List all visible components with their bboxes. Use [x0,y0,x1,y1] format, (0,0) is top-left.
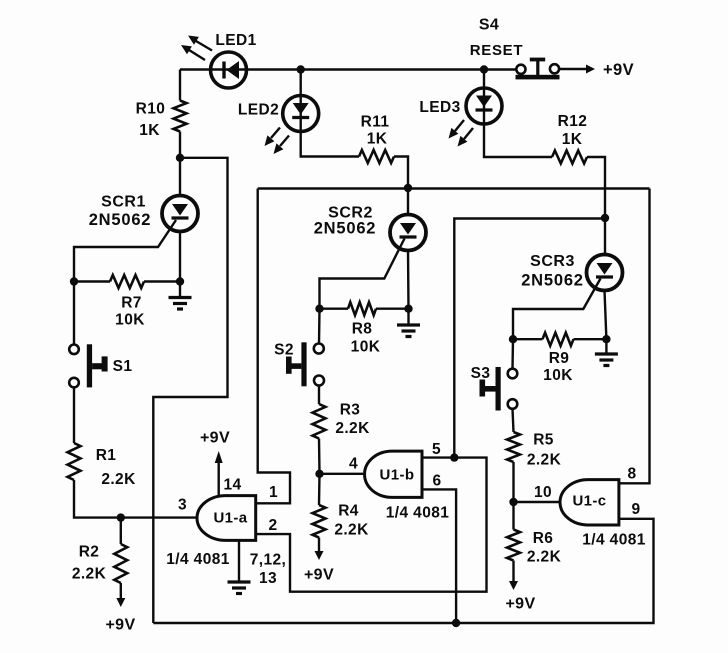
wire LED3 stem down and right to R12 [484,70,552,158]
svg-text:SCR1: SCR1 [101,194,146,211]
switch S3 pushbutton [480,367,518,411]
resistor R3 [313,404,326,439]
switch S4 RESET pushbutton [516,58,560,80]
svg-text:2.2K: 2.2K [335,420,370,437]
wire bottom bus [153,519,653,623]
node R8 left junction [315,305,323,313]
svg-text:8: 8 [627,466,636,483]
wire top +9V bus [180,68,517,70]
wire R2 to +9V arrow [116,583,125,607]
svg-text:LED1: LED1 [215,32,256,49]
svg-text:R6: R6 [533,530,554,547]
wire SCR3 cathode [605,291,607,340]
svg-text:2N5062: 2N5062 [521,272,584,290]
resistor R2 [114,544,127,583]
node LED2 top junction [297,65,305,73]
svg-text:U1-b: U1-b [380,467,415,484]
LED LED2 [283,96,319,132]
node R10/SCR1 junction [176,154,184,162]
node U1-b pin4 junction [315,470,323,478]
switch S2 pushbutton [286,342,324,386]
wire SCR1 gate [74,220,176,282]
wire pin 8 up to SCR2 bus [620,189,650,484]
wire R2 top lead [120,518,122,544]
svg-text:10: 10 [534,484,552,501]
svg-text:2.2K: 2.2K [527,452,562,469]
svg-text:U1-a: U1-a [213,510,247,527]
svg-text:LED2: LED2 [238,102,279,119]
svg-text:1: 1 [269,484,278,501]
node LED3 top junction [480,65,488,73]
wire SCR3 gate [513,279,601,340]
svg-text:9: 9 [631,501,640,518]
svg-text:10K: 10K [351,339,381,356]
node R9 right junction [602,335,610,343]
svg-text:14: 14 [223,477,241,494]
svg-text:2: 2 [268,517,277,534]
svg-text:2.2K: 2.2K [72,566,107,583]
svg-text:1/4 4081: 1/4 4081 [582,532,646,549]
svg-text:2.2K: 2.2K [334,522,369,539]
wire LED2 stem down to R11 [301,70,359,157]
node SCR2 top junction [404,184,412,192]
wire R11 to SCR2 [394,157,408,216]
svg-text:R11: R11 [361,114,390,131]
svg-text:7,12,: 7,12, [250,552,286,569]
node pin6 bottom bus junction [452,619,460,627]
node R7 left junction [70,277,78,285]
svg-text:R2: R2 [79,544,100,561]
svg-text:S1: S1 [113,358,133,375]
svg-text:R12: R12 [558,113,588,130]
svg-text:LED3: LED3 [419,99,460,116]
svg-text:R9: R9 [549,350,570,367]
thyristor SCR1 [162,196,198,232]
svg-text:R5: R5 [533,432,554,449]
svg-text:2N5062: 2N5062 [314,220,377,238]
node R2 junction [117,513,125,521]
resistor R10 [174,101,187,132]
LED3 light arrows [449,120,474,147]
svg-text:6: 6 [432,473,441,490]
svg-text:+9V: +9V [505,596,535,613]
LED LED3 [466,88,502,124]
node pin5 junction [450,453,458,461]
resistor R4 [313,474,326,538]
wire U1-a pin1 from SCR2 bus [257,189,291,504]
svg-text:R3: R3 [340,402,361,419]
svg-text:R10: R10 [136,101,166,118]
wire pin 10 [514,501,561,503]
svg-text:R8: R8 [352,321,373,338]
thyristor SCR3 [587,255,623,291]
wire SCR2 cathode [407,251,410,309]
node SCR1 cathode/R7 junction [176,277,184,285]
resistor R12 [552,151,587,164]
svg-text:1K: 1K [139,122,160,139]
wire R3 to junction [318,439,321,474]
svg-text:U1-c: U1-c [572,493,606,510]
resistor R9 [513,333,606,346]
ground SCR2 [397,309,420,337]
ground U1-a pin7 [228,540,251,593]
op-amp gate U1-c (1/4 4081) [560,480,619,525]
wire SCR2 gate [320,239,405,309]
svg-text:5: 5 [432,441,441,458]
wire R8 left junction down to S2 [318,309,321,344]
wire S2 to R3 [318,386,320,404]
wire pin 4 [320,473,367,475]
wire R12 down to SCR3 [587,157,605,255]
wire U1-a pin2 to U1-b pins5/6 net [257,458,487,592]
svg-text:3: 3 [178,497,187,514]
svg-text:RESET: RESET [470,42,524,59]
svg-text:1/4 4081: 1/4 4081 [166,551,230,568]
resistor R8 [320,302,409,315]
LED LED1 [211,52,247,88]
svg-text:10K: 10K [543,367,573,384]
wire junction right and down to U1-a column [153,158,227,623]
wire R5 to pin10 junction [512,462,514,502]
svg-text:S2: S2 [274,342,294,359]
wire R6 to +9V arrow [509,561,518,591]
svg-text:+9V: +9V [304,567,334,584]
svg-text:2.2K: 2.2K [101,471,136,488]
wire SCR2 anode bus [258,187,650,189]
svg-text:1K: 1K [562,131,583,148]
thyristor SCR2 [390,215,426,251]
resistor R5 [507,432,520,462]
wire bus corner down to R10 [179,70,181,101]
wire R7 junction down to S1 [73,282,75,345]
svg-text:SCR3: SCR3 [530,253,575,270]
op-amp gate U1-b (1/4 4081) [365,451,422,497]
node SCR3 top junction [601,214,609,222]
wire R10 to SCR1 [179,132,181,196]
svg-text:2N5062: 2N5062 [89,211,152,229]
svg-text:2.2K: 2.2K [527,549,562,566]
svg-text:10K: 10K [115,312,145,329]
wire S1 to R1 [73,387,75,443]
wire SCR1 cathode down [179,232,181,282]
svg-text:1/4 4081: 1/4 4081 [386,505,450,522]
svg-text:+9V: +9V [105,617,135,634]
LED2 light arrows [265,128,290,155]
svg-text:+9V: +9V [603,61,634,79]
resistor R1 [68,443,81,480]
wire R9 left junction down to S3 [511,339,514,369]
svg-text:S4: S4 [479,17,499,34]
node U1-c pin10 junction [509,498,517,506]
wire SCR3 box left edge down to pin5 [454,219,605,458]
svg-text:S3: S3 [471,365,491,382]
svg-text:R1: R1 [96,447,117,464]
ground SCR3 [595,339,618,365]
svg-text:13: 13 [259,570,277,587]
wire S3 to R5 [513,409,514,432]
svg-text:R4: R4 [338,503,359,520]
wire pin 6 down to bottom bus [423,489,456,623]
svg-text:R7: R7 [121,295,142,312]
ground SCR1 [169,282,192,310]
wire R1 to U1-a pin3 [74,480,198,518]
svg-text:+9V: +9V [200,430,230,447]
wire S4 to +9V arrow [560,65,596,74]
pin 14 +9V arrow [215,451,223,496]
svg-text:1K: 1K [367,131,388,148]
switch S1 pushbutton [69,344,107,387]
resistor R7 [74,275,180,288]
resistor R6 [507,502,520,561]
resistor R11 [359,150,394,163]
svg-text:4: 4 [349,456,358,473]
node R8 right junction [404,305,412,313]
op-amp gate U1-a (1/4 4081) [197,496,256,541]
node R9 left junction [509,335,517,343]
LED1 light arrows [181,36,212,61]
wire R4 to +9V arrow [315,538,324,561]
